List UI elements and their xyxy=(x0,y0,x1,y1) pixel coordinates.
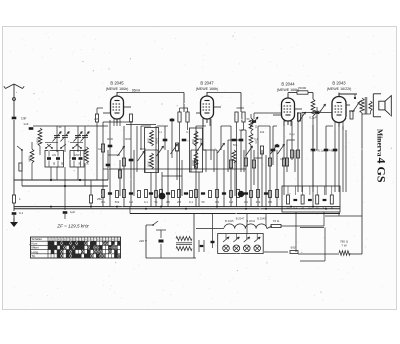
svg-text:220 V: 220 V xyxy=(139,239,147,243)
svg-text:600: 600 xyxy=(291,246,296,250)
svg-text:5000: 5000 xyxy=(155,138,159,144)
svg-text:TA: TA xyxy=(32,254,36,258)
svg-text:0,1μF: 0,1μF xyxy=(315,109,322,113)
svg-text:0,1: 0,1 xyxy=(158,130,162,134)
svg-text:(MEWE 166b): (MEWE 166b) xyxy=(106,87,129,91)
svg-text:0000: 0000 xyxy=(107,137,113,141)
svg-text:50k: 50k xyxy=(233,143,238,147)
svg-text:0,08: 0,08 xyxy=(191,139,195,145)
svg-text:0,1: 0,1 xyxy=(186,130,190,134)
svg-text:4 GS: 4 GS xyxy=(375,158,389,183)
svg-text:0,1: 0,1 xyxy=(144,200,148,204)
svg-text:25k: 25k xyxy=(256,200,261,204)
svg-text:0,1: 0,1 xyxy=(101,200,105,204)
svg-text:0,1: 0,1 xyxy=(308,207,312,210)
svg-text:0,1μ: 0,1μ xyxy=(331,149,337,153)
svg-text:1M: 1M xyxy=(229,200,234,204)
svg-text:B 2045: B 2045 xyxy=(225,219,234,223)
svg-text:0,1μ: 0,1μ xyxy=(318,149,324,153)
svg-text:0,08: 0,08 xyxy=(147,138,151,144)
svg-text:0,1: 0,1 xyxy=(323,207,327,210)
svg-text:B 2044: B 2044 xyxy=(246,219,255,223)
svg-text:LW: LW xyxy=(52,153,56,157)
svg-text:0,1μ: 0,1μ xyxy=(326,148,332,152)
svg-text:0,1: 0,1 xyxy=(19,211,24,215)
svg-text:7 W: 7 W xyxy=(341,244,347,248)
svg-text:B 2044: B 2044 xyxy=(281,82,295,87)
svg-text:B 2043: B 2043 xyxy=(257,217,266,221)
svg-text:1μF: 1μF xyxy=(70,210,75,214)
svg-text:Minerva: Minerva xyxy=(376,129,385,157)
svg-text:50k: 50k xyxy=(115,200,120,204)
svg-text:0,3: 0,3 xyxy=(215,200,219,204)
svg-text:ZF = 129,5 kHz: ZF = 129,5 kHz xyxy=(56,224,89,229)
svg-text:0,5M: 0,5M xyxy=(349,109,356,113)
svg-text:0,5: 0,5 xyxy=(166,200,170,204)
svg-text:0000: 0000 xyxy=(196,137,202,141)
svg-text:0,1: 0,1 xyxy=(244,200,248,204)
svg-text:B 2047: B 2047 xyxy=(200,81,214,86)
svg-text:70 Ω: 70 Ω xyxy=(273,219,280,223)
svg-text:(MEWE 166k): (MEWE 166k) xyxy=(277,88,299,92)
svg-text:B 2043: B 2043 xyxy=(332,81,346,86)
svg-text:70000: 70000 xyxy=(298,86,307,90)
svg-text:50: 50 xyxy=(247,117,250,121)
svg-text:0000: 0000 xyxy=(28,156,32,162)
svg-text:0,3: 0,3 xyxy=(280,157,284,161)
svg-text:0,5: 0,5 xyxy=(268,200,272,204)
svg-text:1nF: 1nF xyxy=(21,117,27,121)
svg-text:0,1: 0,1 xyxy=(294,207,298,210)
svg-text:50: 50 xyxy=(201,200,205,204)
svg-text:MW: MW xyxy=(75,153,80,157)
svg-text:2M: 2M xyxy=(177,200,182,204)
svg-text:(MEWE 16/22t): (MEWE 16/22t) xyxy=(327,87,352,91)
svg-text:0,1: 0,1 xyxy=(189,200,193,204)
svg-text:0,1: 0,1 xyxy=(254,137,258,141)
svg-text:0,1μ: 0,1μ xyxy=(289,132,295,136)
svg-text:65mA: 65mA xyxy=(132,89,141,93)
svg-text:0,1μ: 0,1μ xyxy=(313,148,319,152)
svg-text:0000: 0000 xyxy=(191,160,195,166)
svg-text:40k: 40k xyxy=(260,130,265,134)
svg-text:B 2045: B 2045 xyxy=(110,81,124,86)
svg-text:1nF: 1nF xyxy=(23,122,28,126)
svg-text:0,1: 0,1 xyxy=(239,128,243,132)
svg-text:(MEWE 166b): (MEWE 166b) xyxy=(196,87,219,91)
svg-text:0000: 0000 xyxy=(147,161,151,167)
svg-text:1M: 1M xyxy=(129,200,134,204)
svg-text:0,1: 0,1 xyxy=(254,125,258,129)
svg-text:5000: 5000 xyxy=(36,138,40,144)
svg-text:5000: 5000 xyxy=(140,147,146,151)
svg-text:0000: 0000 xyxy=(125,137,131,141)
svg-text:B 2047: B 2047 xyxy=(236,217,245,221)
